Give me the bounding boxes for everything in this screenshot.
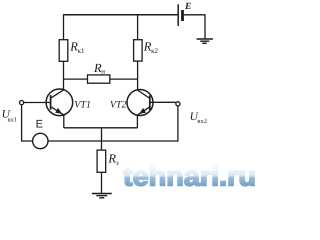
wire VT2 emitter down xyxy=(136,115,138,128)
resistor Rk2 xyxy=(134,40,143,61)
wire VT1 base xyxy=(24,102,51,104)
wire VT1 emitter down xyxy=(63,115,65,128)
wire VT2 base xyxy=(150,101,176,103)
svg-text:E: E xyxy=(184,2,191,12)
battery E short plate xyxy=(181,10,184,21)
wire left collector branch top xyxy=(63,14,65,40)
wire Rk2 to VT2 collector xyxy=(137,61,139,90)
wire join to Re xyxy=(101,128,103,150)
label Rk1 xyxy=(69,40,85,56)
transistor VT1 xyxy=(46,89,73,116)
ground (top right) xyxy=(197,39,213,43)
label Rk2 xyxy=(143,40,159,56)
svg-text:вх1: вх1 xyxy=(8,117,18,124)
battery E long plate xyxy=(177,4,179,26)
wire battery to ground xyxy=(184,15,205,39)
svg-text:tehnari.ru: tehnari.ru xyxy=(123,162,256,192)
svg-text:к2: к2 xyxy=(151,47,158,55)
resistor Rn xyxy=(88,75,110,83)
wire right collector branch top xyxy=(137,14,139,40)
svg-text:н: н xyxy=(101,67,105,75)
wire terminal to source E xyxy=(22,105,33,141)
wire top rail xyxy=(64,14,178,16)
wire Rn horizontal xyxy=(64,78,138,80)
wire bottom rail to Uvx2 xyxy=(48,106,178,141)
label Rn xyxy=(93,61,105,76)
transistor VT2 xyxy=(127,90,153,116)
svg-text:э: э xyxy=(116,159,119,167)
wire Re to ground xyxy=(101,172,103,193)
node terminal Uvx1 xyxy=(20,101,24,105)
resistor Rk1 xyxy=(59,40,68,62)
svg-text:вх2: вх2 xyxy=(197,118,207,125)
svg-text:к1: к1 xyxy=(78,47,85,55)
ground (bottom) xyxy=(92,194,112,198)
svg-text:VT1: VT1 xyxy=(74,99,91,110)
label Uvx1 xyxy=(2,109,18,124)
wire emitter join xyxy=(64,127,138,129)
source E circle xyxy=(33,133,48,148)
svg-text:E: E xyxy=(36,119,43,131)
svg-text:VT2: VT2 xyxy=(110,99,127,110)
label Uvx2 xyxy=(190,111,207,125)
node terminal Uvx2 xyxy=(176,102,180,106)
resistor Re xyxy=(97,150,106,172)
label Re xyxy=(107,151,118,167)
wire Rk1 to VT1 collector xyxy=(63,61,65,90)
